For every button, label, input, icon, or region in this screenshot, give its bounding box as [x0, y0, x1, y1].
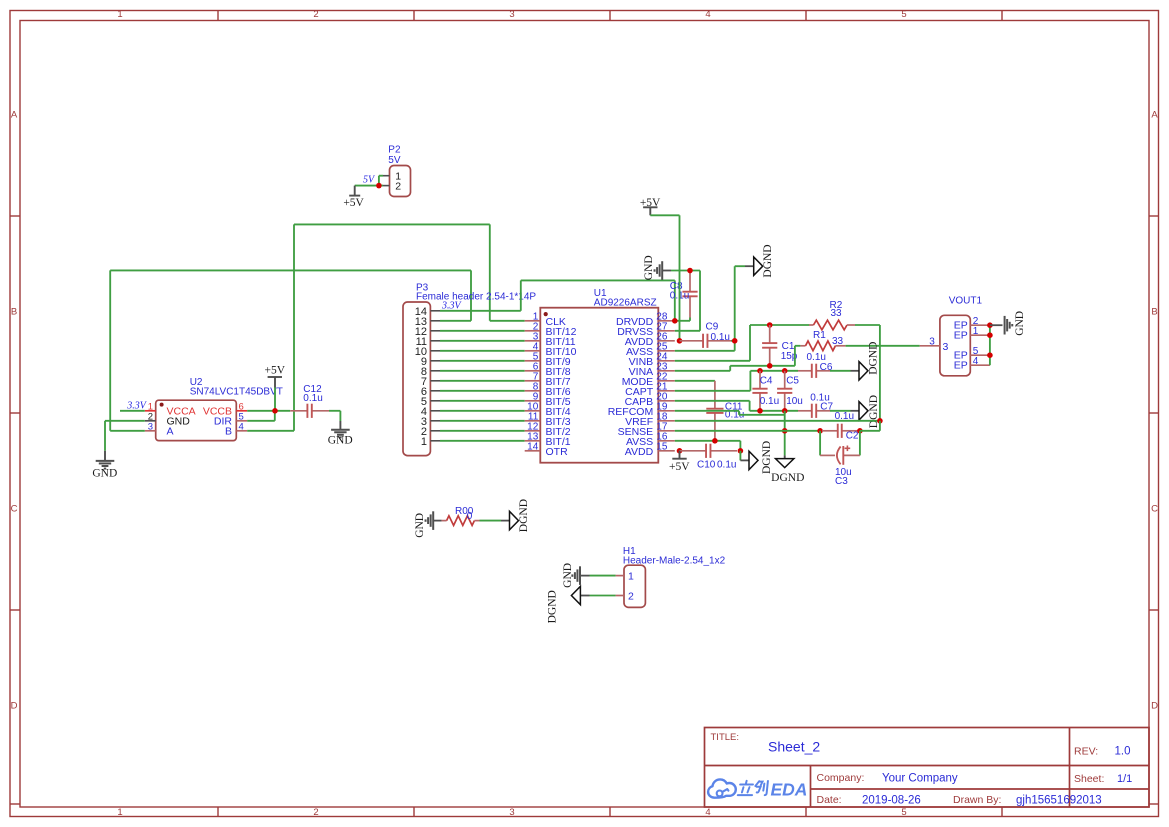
- wire +5V to U2.VCCB and DIR: [247, 388, 290, 421]
- U1 pin 2 BIT/12: [533, 322, 577, 339]
- power symbol +5V at P2: [343, 186, 364, 210]
- wire C9 right / AVSS pin25 to DGND: [675, 266, 745, 351]
- junction at AVDD pin26: [677, 338, 683, 344]
- capacitor C11: [706, 381, 723, 441]
- svg-text:2: 2: [313, 807, 318, 818]
- junction at C5 top: [782, 368, 788, 374]
- connector H1: [616, 565, 646, 607]
- svg-text:SN74LVC1T45DBVT: SN74LVC1T45DBVT: [190, 387, 283, 398]
- wire +5V to U1.AVDD pin26: [650, 215, 679, 340]
- svg-text:GND: GND: [92, 468, 117, 480]
- svg-text:TITLE:: TITLE:: [711, 732, 740, 743]
- svg-text:2019-08-26: 2019-08-26: [862, 795, 921, 807]
- U1 pin 28 DRVDD: [616, 312, 668, 329]
- svg-text:DGND: DGND: [868, 342, 880, 375]
- wire P3.9 to U1.BIT/9: [440, 360, 525, 362]
- resistor R2: [809, 320, 855, 330]
- wire P3.11 to U1.BIT/11: [440, 340, 525, 342]
- svg-text:1: 1: [117, 807, 122, 818]
- capacitor C2: [822, 424, 858, 438]
- junction ground column at SENSE row: [782, 428, 788, 434]
- svg-text:B: B: [11, 307, 17, 318]
- junction at C11 bottom: [712, 438, 718, 444]
- svg-text:A: A: [167, 425, 174, 437]
- svg-text:0.1u: 0.1u: [303, 393, 322, 404]
- U2 pin 4 B: [225, 421, 244, 437]
- wire VINB to R2/C1 top: [675, 325, 810, 361]
- svg-text:AVDD: AVDD: [625, 446, 654, 458]
- ground GND left of R00: [414, 511, 442, 538]
- junction SENSE / C2 left / C3: [817, 428, 823, 434]
- svg-text:Female header 2.54-1*14P: Female header 2.54-1*14P: [416, 292, 536, 303]
- svg-text:5V: 5V: [363, 175, 376, 186]
- U1 pin 13 BIT/1: [527, 432, 571, 449]
- U1 pin 17 SENSE: [618, 422, 668, 439]
- svg-text:3: 3: [148, 421, 153, 432]
- wire C10 right to DGND: [739, 451, 741, 461]
- wire C12 to ground: [329, 411, 340, 421]
- svg-text:4: 4: [705, 807, 710, 818]
- ground GND at H1 pin1: [562, 563, 589, 588]
- wire AVSS pin16 to C11 bottom and ground: [675, 441, 741, 451]
- title block: [705, 728, 1150, 808]
- svg-text:R1: R1: [813, 330, 826, 341]
- junction at U2 VCCB: [272, 408, 278, 414]
- svg-text:1: 1: [973, 326, 979, 337]
- power symbol +5V below AVDD pin15: [669, 451, 690, 473]
- svg-text:3.3V: 3.3V: [441, 301, 463, 312]
- VOUT1 pin 1 EP: [954, 326, 979, 342]
- svg-text:C9: C9: [706, 322, 719, 333]
- connector P2: [383, 166, 411, 197]
- U2 pin 3 A: [148, 421, 174, 437]
- svg-text:3: 3: [509, 9, 514, 20]
- resistor R1: [800, 341, 845, 351]
- U1 pin 10 BIT/4: [527, 402, 571, 419]
- junction at C10 right: [738, 448, 744, 454]
- U2 pin 2 GND: [148, 411, 191, 427]
- U2 pin 5 DIR: [214, 411, 244, 427]
- U1 pin 15 AVDD: [625, 442, 668, 459]
- power symbol +5V above U2: [265, 364, 286, 387]
- svg-text:3: 3: [509, 807, 514, 818]
- svg-text:DGND: DGND: [868, 395, 880, 428]
- svg-text:C10: C10: [697, 460, 716, 471]
- U1 pin 4 BIT/10: [533, 342, 577, 359]
- svg-text:3: 3: [943, 341, 949, 353]
- svg-text:5: 5: [901, 807, 906, 818]
- junction at C1 top: [767, 322, 773, 328]
- svg-text:D: D: [1151, 701, 1158, 712]
- svg-text:Sheet_2: Sheet_2: [768, 739, 820, 755]
- svg-text:C: C: [1151, 504, 1158, 515]
- svg-text:2: 2: [313, 9, 318, 20]
- U2 pin 6 VCCB: [203, 401, 244, 417]
- capacitor C6: [798, 364, 830, 378]
- svg-text:0.1u: 0.1u: [711, 332, 730, 343]
- junction VOUT1 pin5: [987, 352, 993, 358]
- wire net 3.3V : P3.14 to U1.DRVDD: [440, 280, 675, 320]
- wire P3.5 to U1.BIT/5: [440, 400, 525, 402]
- svg-text:EP: EP: [954, 360, 968, 372]
- svg-text:DGND: DGND: [546, 590, 558, 623]
- svg-text:0: 0: [467, 511, 473, 522]
- svg-text:GND: GND: [414, 513, 426, 538]
- wire net 5V at P2: [355, 176, 383, 186]
- svg-text:C4: C4: [760, 376, 773, 387]
- svg-text:15: 15: [656, 442, 668, 453]
- junction at GND / C8 top: [687, 268, 693, 274]
- wire C8 bottom to DRVDD: [675, 318, 690, 321]
- svg-text:DGND: DGND: [762, 244, 774, 277]
- svg-text:5: 5: [901, 9, 906, 20]
- ground DGND below SENSE: [771, 455, 804, 484]
- capacitor C5: [777, 371, 792, 411]
- ground GND right of VOUT1: [990, 311, 1026, 336]
- ground GND below U2: [92, 451, 117, 480]
- U1 pin 16 AVSS: [626, 432, 668, 449]
- U2 pin 1 VCCA: [148, 401, 196, 417]
- U1 pin 24 VINB: [629, 352, 668, 369]
- wire CAPT rail to C4/C5 tops and C6: [675, 371, 798, 391]
- wire H1 pin2 to DGND: [590, 595, 616, 597]
- svg-text:EDA: EDA: [771, 779, 808, 799]
- ground DGND at H1 pin2: [546, 586, 589, 623]
- U1 pin 23 VINA: [629, 362, 668, 379]
- svg-text:GND: GND: [643, 255, 655, 280]
- wire REFCOM jog to ground column: [675, 411, 785, 415]
- capacitor C7: [798, 404, 830, 418]
- wire P3.2 to U1.BIT/2: [440, 430, 525, 432]
- svg-text:33: 33: [832, 336, 844, 347]
- connector VOUT1: [920, 315, 990, 376]
- junction at C1 bottom: [767, 363, 773, 369]
- junction VOUT1 pin2: [987, 322, 993, 328]
- wire 3.3V stub at U2 pin1: [120, 410, 145, 412]
- VOUT1 pin 4 EP: [954, 356, 979, 372]
- svg-text:4: 4: [973, 356, 979, 367]
- capacitor C8: [682, 271, 697, 318]
- svg-text:0.1u: 0.1u: [717, 460, 736, 471]
- junction C2 right / C3: [857, 428, 863, 434]
- U1 pin 14 OTR: [527, 442, 568, 459]
- svg-text:gjh15651692013: gjh15651692013: [1016, 795, 1102, 807]
- ground DGND near C9: [745, 244, 774, 277]
- svg-text:Your Company: Your Company: [882, 773, 958, 785]
- svg-text:2: 2: [395, 181, 401, 193]
- junction at AVDD pin15: [677, 448, 683, 454]
- svg-text:1/1: 1/1: [1117, 773, 1132, 785]
- wire ground column C5bottom to SENSE and DGND: [784, 411, 786, 456]
- wire H1 pin1 to GND: [590, 575, 616, 577]
- svg-text:1: 1: [117, 9, 122, 20]
- resistor R00: [442, 516, 480, 526]
- svg-text:EP: EP: [954, 330, 968, 342]
- ground DGND near C10: [740, 441, 773, 474]
- svg-text:C3: C3: [835, 476, 848, 487]
- svg-text:33: 33: [831, 308, 843, 319]
- U1 pin 22 MODE: [622, 372, 668, 389]
- svg-text:DGND: DGND: [771, 472, 804, 484]
- svg-text:GND: GND: [328, 435, 353, 447]
- svg-text:Sheet:: Sheet:: [1074, 773, 1104, 785]
- U1 pin1 marker: [544, 312, 548, 316]
- ground GND near C8: [643, 255, 671, 280]
- svg-text:B: B: [1151, 307, 1157, 318]
- svg-text:14: 14: [527, 442, 539, 453]
- svg-text:3: 3: [929, 336, 935, 347]
- wire R2 right to VREF junction: [855, 325, 880, 421]
- svg-text:Header-Male-2.54_1x2: Header-Male-2.54_1x2: [623, 556, 726, 567]
- wire C6 to DGND: [830, 370, 851, 372]
- ground DGND right of R00: [501, 499, 530, 532]
- U1 pin 18 VREF: [625, 412, 668, 429]
- U2 pin1 marker: [160, 403, 164, 407]
- U1 pin 12 BIT/2: [527, 422, 571, 439]
- junction at P2 pin2: [376, 183, 382, 189]
- junction at DRVDD pin28: [672, 318, 678, 324]
- svg-text:P2: P2: [388, 145, 401, 156]
- svg-text:1: 1: [421, 436, 427, 448]
- svg-text:GND: GND: [1014, 311, 1026, 336]
- U1 pin 7 BIT/7: [533, 372, 571, 389]
- U1 pin 3 BIT/11: [533, 332, 576, 349]
- svg-text:VOUT1: VOUT1: [949, 296, 983, 307]
- IC U1 AD9226ARSZ: [525, 308, 675, 463]
- junction VREF / R2 / C2: [877, 418, 883, 424]
- svg-text:D: D: [11, 701, 18, 712]
- wire R1 right to VOUT1 pin3: [846, 345, 920, 347]
- svg-text:Date:: Date:: [817, 794, 842, 806]
- U1 pin 25 AVSS: [626, 342, 668, 359]
- svg-text:GND: GND: [562, 563, 574, 588]
- junction at C4 top: [757, 368, 763, 374]
- U1 pin 11 BIT/3: [528, 412, 571, 429]
- connector P3 female header: [403, 302, 440, 456]
- svg-text:1.0: 1.0: [1115, 746, 1131, 758]
- wire net B/CLK : U2.B to U1.CLK: [247, 224, 525, 430]
- VOUT1 pin 5 EP: [954, 346, 979, 362]
- wire SENSE row: [675, 430, 822, 432]
- svg-text:C: C: [11, 504, 18, 515]
- svg-text:OTR: OTR: [546, 446, 569, 458]
- U1 pin 26 AVDD: [625, 332, 668, 349]
- svg-text:C5: C5: [786, 376, 799, 387]
- svg-text:A: A: [1151, 110, 1158, 121]
- capacitor C9: [680, 334, 732, 348]
- VOUT1 pin 2 EP: [954, 316, 979, 332]
- wire net A : U2.A to P3.13: [110, 270, 471, 430]
- U1 pin 6 BIT/8: [533, 362, 571, 379]
- wire C2 right to VREF junction: [860, 421, 880, 431]
- svg-text:+5V: +5V: [265, 364, 286, 376]
- svg-text:C2: C2: [846, 431, 859, 442]
- svg-text:5V: 5V: [388, 155, 401, 166]
- wire P3.7 to U1.BIT/7: [440, 380, 525, 382]
- wire VINA to C1 bottom and R1: [675, 346, 801, 371]
- U1 pin 21 CAPT: [625, 382, 668, 399]
- VOUT1 pin 3: [929, 336, 948, 353]
- capacitor C1: [762, 325, 777, 366]
- svg-text:+5V: +5V: [669, 461, 690, 473]
- U1 pin 19 REFCOM: [608, 402, 668, 419]
- wire CAPB rail to C4/C5 bottoms and C7: [675, 401, 798, 411]
- wire U2 GND to ground: [105, 421, 145, 451]
- U1 pin 8 BIT/6: [533, 382, 571, 399]
- junction VOUT1 pin1: [987, 332, 993, 338]
- wire R00 to DGND: [480, 520, 502, 522]
- junction at C9 right: [732, 338, 738, 344]
- wire P3.10 to U1.BIT/10: [440, 350, 525, 352]
- wire P3.6 to U1.BIT/6: [440, 390, 525, 392]
- junction at C5 bottom: [782, 408, 788, 414]
- EasyEDA (LCEDA) logo: [708, 779, 807, 799]
- ground DGND near C7: [851, 395, 881, 428]
- svg-text:DGND: DGND: [518, 499, 530, 532]
- svg-text:Company:: Company:: [817, 772, 865, 784]
- svg-text:2: 2: [628, 591, 634, 603]
- capacitor C4: [752, 371, 767, 411]
- svg-text:4: 4: [705, 9, 710, 20]
- wire C7 to DGND: [830, 410, 851, 412]
- capacitor C3 polarized: [820, 431, 860, 465]
- wire MODE to C11: [675, 380, 715, 382]
- svg-text:DGND: DGND: [761, 441, 773, 474]
- svg-text:+5V: +5V: [343, 197, 364, 209]
- capacitor C12: [290, 404, 329, 418]
- U1 pin 27 DRVSS: [617, 322, 668, 339]
- U1 pin 20 CAPB: [625, 392, 668, 409]
- svg-text:4: 4: [239, 421, 244, 432]
- wire P3.8 to U1.BIT/8: [440, 370, 525, 372]
- svg-text:Drawn By:: Drawn By:: [953, 794, 1001, 806]
- op-chip U2 SN74LVC1T45DBVT: [145, 400, 247, 440]
- power symbol +5V above C9: [640, 197, 661, 216]
- wire P3.1 to U1.BIT/1: [440, 440, 525, 442]
- wire GND to C8 top and U1.DRVSS: [671, 271, 700, 331]
- svg-text:B: B: [225, 425, 232, 437]
- U1 pin 9 BIT/5: [533, 392, 571, 409]
- svg-text:0.1u: 0.1u: [760, 396, 779, 407]
- svg-text:1: 1: [628, 571, 634, 583]
- svg-text:A: A: [11, 110, 18, 121]
- junction at C4 bottom: [757, 408, 763, 414]
- capacitor C10: [680, 444, 738, 458]
- ground GND right of C12: [328, 421, 353, 447]
- svg-text:AD9226ARSZ: AD9226ARSZ: [594, 298, 657, 309]
- wire VOUT1 ground bus: [989, 325, 991, 365]
- wire P3.3 to U1.BIT/3: [440, 420, 525, 422]
- wire P3.12 to U1.BIT/12: [440, 330, 525, 332]
- svg-text:0.1u: 0.1u: [835, 411, 854, 422]
- wire P3.4 to U1.BIT/4: [440, 410, 525, 412]
- U1 pin 1 CLK: [533, 312, 566, 329]
- ground DGND near C6: [851, 342, 880, 380]
- svg-text:10u: 10u: [786, 396, 803, 407]
- svg-text:REV:: REV:: [1074, 746, 1098, 758]
- U1 pin 5 BIT/9: [533, 352, 571, 369]
- wire VREF row: [675, 420, 880, 422]
